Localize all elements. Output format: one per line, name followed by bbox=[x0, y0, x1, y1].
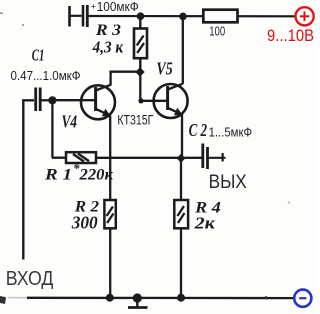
resistor R3 (vertical) bbox=[134, 29, 147, 59]
node junction R4 bottom bbox=[177, 294, 185, 302]
transistor V5 КТ315Г bbox=[154, 84, 188, 118]
wire R4 top stub bbox=[180, 158, 182, 200]
wire R3 bottom stub bbox=[139, 58, 141, 71]
svg-text:ВЫХ: ВЫХ bbox=[209, 172, 247, 193]
capacitor C2 bbox=[203, 144, 226, 170]
terminal - (negative supply) bbox=[294, 290, 311, 307]
wire R4 bottom to rail bbox=[180, 228, 182, 297]
wire V5 emitter down bbox=[181, 115, 183, 159]
wire bottom rail bbox=[27, 297, 294, 300]
node junction R3 bottom / V4 collector / V5 base bbox=[135, 67, 144, 76]
wire from node down to R1 bbox=[52, 100, 66, 157]
node junction top of V5 collector bbox=[179, 13, 187, 21]
svg-text:1...5мкФ: 1...5мкФ bbox=[209, 125, 253, 140]
svg-text:100мкФ: 100мкФ bbox=[97, 0, 139, 14]
svg-text:C1: C1 bbox=[32, 46, 45, 65]
node junction top of R3 bbox=[137, 12, 145, 20]
resistor R4 (vertical) bbox=[174, 200, 188, 228]
svg-text:КТ315Г: КТ315Г bbox=[117, 112, 154, 127]
wire R2 top stub bbox=[109, 158, 111, 200]
wire R3 top stub bbox=[139, 16, 141, 29]
node junction R2 bottom bbox=[106, 294, 114, 302]
svg-text:220к: 220к bbox=[78, 167, 113, 184]
node junction C1 / V4 base / R1 bbox=[48, 96, 56, 104]
scan artifact bottom-left bbox=[0, 296, 6, 304]
svg-text:C 2: C 2 bbox=[189, 120, 208, 140]
wire input terminal to C1 bbox=[23, 100, 34, 259]
wire V5 collector up to top rail bbox=[182, 16, 184, 84]
svg-text:100: 100 bbox=[209, 24, 225, 38]
node junction ground bbox=[133, 293, 142, 302]
resistor R1 (horizontal) bbox=[66, 152, 96, 163]
transistor V4 КТ315Г bbox=[52, 85, 115, 120]
resistor R5 100 (horizontal) bbox=[203, 10, 237, 23]
svg-text:V5: V5 bbox=[156, 58, 172, 78]
capacitor C3 100мкФ electrolytic bbox=[70, 5, 88, 27]
node junction V5 emitter / C2 / R4 bbox=[177, 154, 186, 163]
svg-text:9...10В: 9...10В bbox=[267, 27, 314, 45]
svg-text:R 3: R 3 bbox=[95, 22, 121, 39]
wire emitters node (R1 right to C2) bbox=[96, 157, 202, 159]
svg-text:4,3 к: 4,3 к bbox=[92, 38, 124, 57]
wire R2 bottom to rail bbox=[109, 228, 111, 297]
wire V4 emitter down bbox=[109, 116, 111, 159]
svg-text:R 1: R 1 bbox=[44, 167, 72, 184]
terminal + (positive supply) bbox=[296, 7, 314, 25]
svg-text:ВХОД: ВХОД bbox=[6, 268, 54, 290]
resistor R2 (vertical) bbox=[104, 200, 115, 228]
svg-text:2к: 2к bbox=[193, 214, 215, 233]
wire from node to V4 collector bbox=[111, 72, 141, 86]
wire top rail from C3 to + terminal bbox=[89, 15, 297, 17]
capacitor C1 bbox=[36, 88, 53, 112]
svg-text:0.47...1.0мкФ: 0.47...1.0мкФ bbox=[11, 68, 81, 83]
wire node down to V5 base bbox=[139, 72, 141, 101]
svg-text:300: 300 bbox=[71, 213, 98, 233]
ground bbox=[128, 298, 148, 308]
wire V5 base bbox=[140, 100, 167, 102]
svg-text:V4: V4 bbox=[62, 112, 78, 132]
svg-text:+: + bbox=[91, 2, 96, 12]
node junction V5 base wire bbox=[138, 98, 143, 103]
